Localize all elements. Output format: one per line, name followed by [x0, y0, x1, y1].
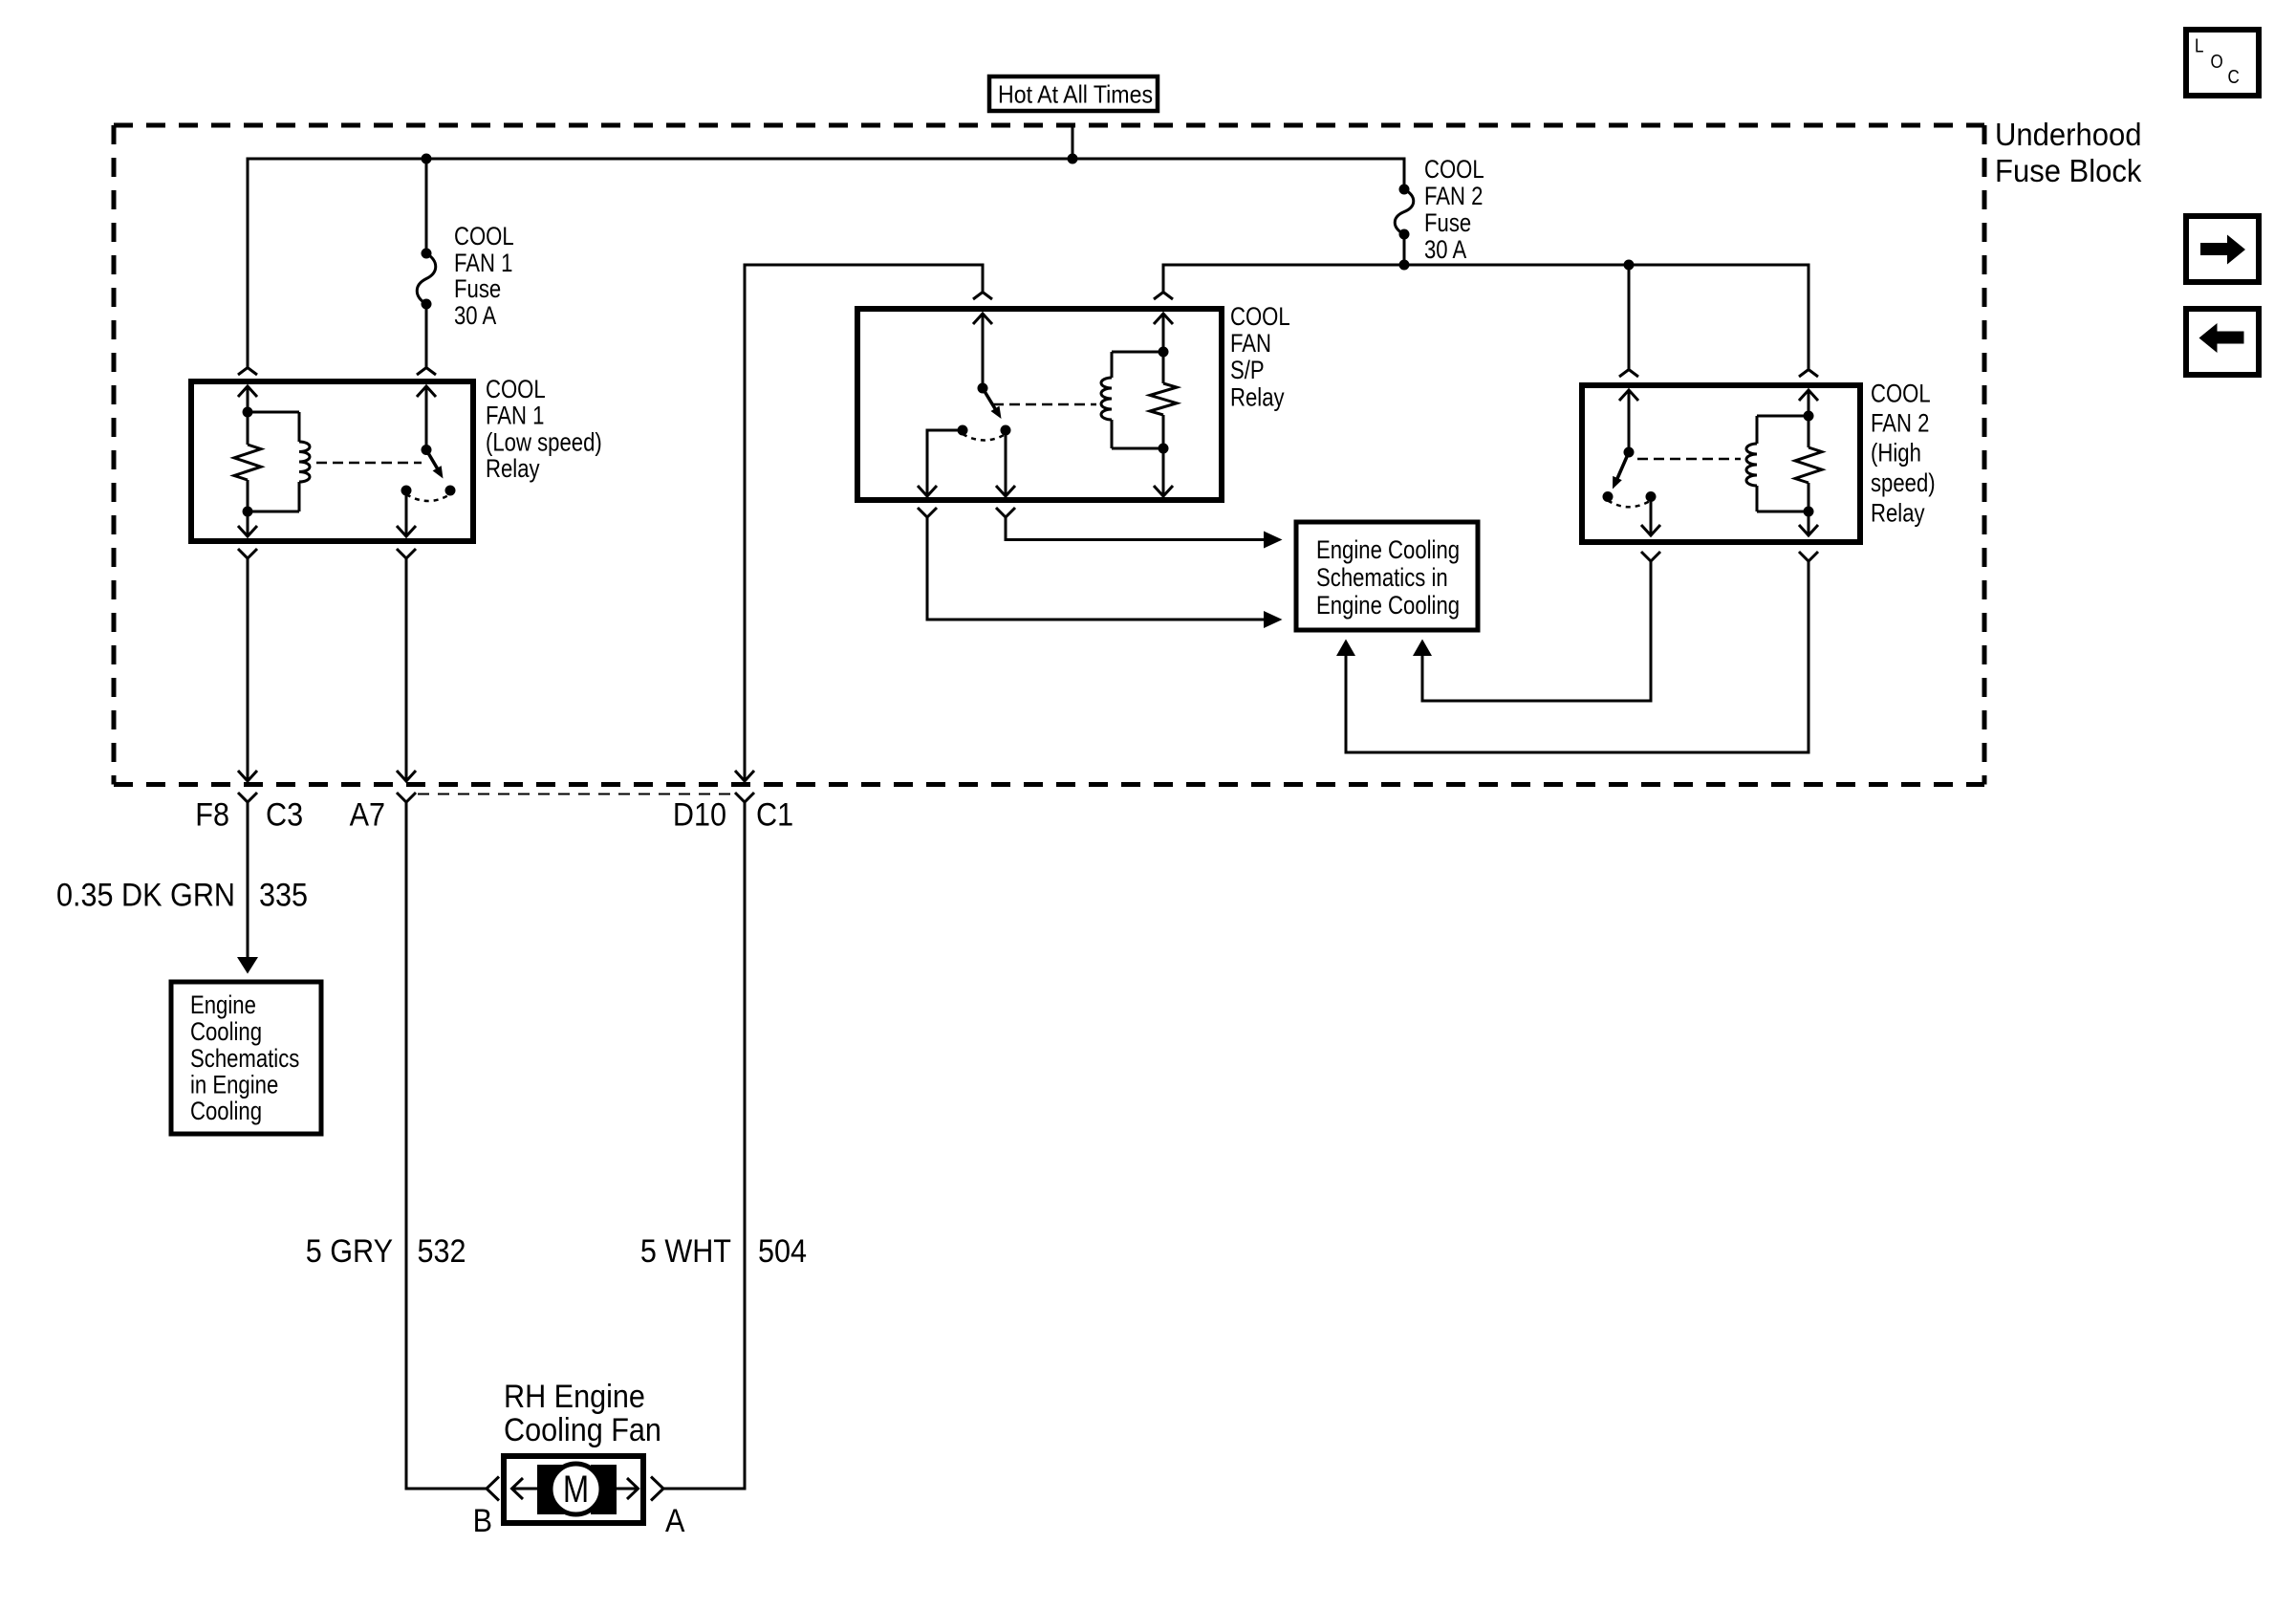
svg-text:Underhood: Underhood	[1995, 117, 2141, 152]
coil element K1	[299, 442, 310, 482]
svg-text:Engine: Engine	[190, 991, 256, 1020]
svg-text:F8: F8	[195, 796, 229, 833]
fuse F2 label	[1424, 156, 1484, 265]
wire: relay2 switch out to center ECS (right up-arrow)	[1422, 561, 1651, 701]
relay K3 COOL FAN 2 (High speed) box	[1582, 385, 1860, 542]
border arrow: A7 wire	[397, 771, 416, 781]
underhood fuse block label	[1995, 117, 2142, 188]
relay K2 coil + resistor parallel	[1101, 347, 1177, 454]
fuse F2 COOL FAN 2 30A	[1395, 185, 1414, 240]
wire: A7 feed down to border	[405, 558, 408, 781]
svg-text:532: 532	[418, 1233, 466, 1270]
pin arrow down: relay1 switch out	[397, 526, 416, 536]
relay K3 label	[1871, 381, 1936, 529]
svg-text:M: M	[563, 1468, 589, 1511]
svg-text:S/P: S/P	[1230, 357, 1265, 385]
pin arrow down: S/P coil out	[1154, 486, 1173, 496]
wire: relay2 coil down	[1808, 511, 1810, 535]
LOC page symbol box	[2186, 30, 2259, 96]
wire: relay2 switch pin drop	[1628, 265, 1631, 369]
connector Y below relay1 coil pin	[238, 549, 257, 558]
RH Engine Cooling Fan label	[504, 1378, 661, 1447]
svg-text:in Engine: in Engine	[190, 1072, 278, 1100]
svg-text:Relay: Relay	[1871, 500, 1925, 529]
wire: hot feed drop from border	[1072, 127, 1074, 159]
pin arrow up: relay1 switch pin	[417, 386, 436, 397]
svg-text:COOL: COOL	[1230, 303, 1290, 332]
arrow up into center ECS box (right)	[1413, 640, 1432, 657]
svg-text:C1: C1	[756, 796, 793, 833]
coil element K3	[1746, 444, 1757, 486]
svg-text:Cooling Fan: Cooling Fan	[504, 1412, 661, 1448]
connector chevron: relay2 switch pin top	[1619, 370, 1638, 378]
svg-text:Cooling: Cooling	[190, 1018, 262, 1047]
connector chevron: fan pin A	[651, 1477, 663, 1501]
pin arrow up: S/P switch pin	[973, 314, 992, 324]
relay K2 label	[1230, 303, 1290, 412]
resistor element K3	[1795, 447, 1822, 483]
svg-text:FAN 2: FAN 2	[1871, 410, 1929, 439]
svg-text:Schematics: Schematics	[190, 1045, 299, 1074]
wire: relay1 coil pin down	[247, 511, 249, 536]
svg-text:335: 335	[259, 877, 308, 913]
wire: bus segment A (D10 riser to S/P switch pin)	[745, 265, 983, 781]
svg-text:0.35 DK GRN: 0.35 DK GRN	[56, 877, 235, 913]
svg-text:speed): speed)	[1871, 469, 1936, 498]
wire: fuse1 lower lead	[425, 304, 428, 367]
svg-text:30 A: 30 A	[1424, 236, 1467, 265]
svg-text:Fuse: Fuse	[1424, 209, 1471, 238]
dashed control link K3	[1637, 458, 1741, 461]
wire: fuse1 upper lead	[425, 159, 428, 253]
connector Y below relay2 switch pin	[1641, 552, 1660, 561]
relay K2 COOL FAN S/P box	[857, 309, 1222, 500]
svg-text:Relay: Relay	[1230, 384, 1285, 413]
svg-text:C3: C3	[266, 796, 303, 833]
node: relay2 switch-pin junction	[1624, 260, 1635, 271]
dashed control link K2	[993, 403, 1096, 406]
wire: S/P left out to center ECS box (lower)	[927, 517, 1264, 620]
svg-text:C: C	[2228, 66, 2240, 88]
connector Y: C3 below border	[238, 793, 257, 802]
wire: S/P NC to left then down	[927, 430, 963, 496]
svg-text:5 WHT: 5 WHT	[640, 1233, 731, 1270]
svg-text:FAN: FAN	[1230, 330, 1271, 359]
connector dashed line A7-D10	[418, 794, 735, 795]
svg-text:O: O	[2211, 51, 2223, 73]
svg-text:RH Engine: RH Engine	[504, 1378, 645, 1414]
wire: S/P NO out to center ECS box (upper)	[1006, 517, 1264, 540]
node: fuse1 branch junction	[422, 154, 432, 164]
wire: 532 circuit A7 down to fan	[406, 802, 487, 1489]
connector Y: C1 below border	[735, 793, 754, 802]
connector Y: A7 below border	[397, 793, 416, 802]
svg-text:30 A: 30 A	[454, 302, 497, 331]
wire: bus segment B (S/P coil pin to relay2)	[1163, 265, 1809, 369]
wire: main B+ bus to fuses	[248, 159, 1404, 367]
svg-text:Relay: Relay	[486, 455, 540, 484]
pin arrow up: relay2 switch pin	[1619, 390, 1638, 401]
svg-text:Schematics in: Schematics in	[1316, 564, 1448, 593]
arrow up into center ECS box (left)	[1336, 640, 1355, 657]
wire: S/P NO down	[1005, 430, 1007, 496]
svg-text:Fuse Block: Fuse Block	[1995, 153, 2142, 188]
arrow into left ECS box	[237, 957, 258, 974]
svg-text:Engine Cooling: Engine Cooling	[1316, 592, 1460, 620]
node: hot feed junction	[1068, 154, 1078, 164]
pin arrow down: S/P left out	[918, 486, 937, 496]
connector chevron: relay1 pin top-right	[417, 368, 436, 376]
connector chevron: relay1 pin top-left	[238, 368, 257, 376]
node: fuse2 junction on bus B	[1399, 260, 1410, 271]
relay K3 coil + resistor parallel	[1746, 411, 1822, 517]
wire: 504 circuit C1 down to fan	[663, 802, 745, 1489]
resistor element K1	[234, 445, 261, 480]
wire: relay2 coil out to center ECS (left up-arrow)	[1346, 561, 1809, 752]
relay K1 coil + resistor parallel	[234, 407, 310, 517]
connector Y below relay1 switch pin	[397, 549, 416, 558]
wire: 335 circuit down from C3	[247, 802, 249, 958]
wire: fuse2 output lead	[1403, 234, 1406, 265]
connector Y below S/P left pin	[918, 508, 937, 517]
dashed control link K1	[316, 462, 422, 465]
svg-text:A7: A7	[350, 796, 385, 833]
svg-text:COOL: COOL	[454, 223, 514, 251]
fuse F1 label	[454, 223, 514, 331]
connector chevron: fan pin B	[487, 1477, 499, 1501]
pin arrow down: relay1 coil out	[238, 526, 257, 536]
pin arrow up: relay1 coil pin	[238, 386, 257, 397]
engine cooling schematics box (left)	[171, 982, 321, 1134]
connector chevron: S/P coil pin top	[1154, 293, 1173, 300]
svg-text:FAN 1: FAN 1	[454, 250, 512, 278]
svg-text:COOL: COOL	[486, 376, 546, 404]
engine cooling schematics box (center)	[1296, 522, 1478, 630]
left-arrow nav box	[2186, 309, 2259, 375]
svg-text:FAN 2: FAN 2	[1424, 183, 1483, 211]
wire: relay2 NO down	[1650, 497, 1653, 536]
svg-text:(High: (High	[1871, 440, 1921, 468]
relay K1 label	[486, 376, 602, 484]
right-arrow nav box	[2186, 216, 2259, 282]
relay K1 switch	[401, 445, 456, 501]
svg-text:COOL: COOL	[1424, 156, 1484, 185]
svg-text:(Low speed): (Low speed)	[486, 428, 602, 457]
svg-text:L: L	[2195, 34, 2203, 56]
wire: relay1 switch NC down	[405, 490, 408, 536]
fuse F1 COOL FAN 1 30A	[417, 249, 436, 310]
svg-text:504: 504	[758, 1233, 807, 1270]
pin arrow down: relay2 switch out	[1641, 525, 1660, 535]
pin arrow up: relay2 coil pin	[1799, 390, 1818, 401]
svg-text:COOL: COOL	[1871, 381, 1931, 409]
wire: F8 feed down to border	[247, 558, 249, 781]
pin arrow down: S/P NO out	[996, 486, 1015, 496]
resistor element K2	[1150, 383, 1177, 415]
svg-text:5 GRY: 5 GRY	[306, 1233, 393, 1270]
svg-text:Cooling: Cooling	[190, 1098, 262, 1126]
wire: S/P coil down	[1162, 448, 1165, 496]
border arrow: D10 wire	[735, 771, 754, 781]
hot-at-all-times box	[989, 76, 1158, 111]
underhood fuse block dashed border	[114, 125, 1984, 785]
coil element K2	[1101, 378, 1112, 420]
connector Y below relay2 coil pin	[1799, 552, 1818, 561]
pin arrow up: S/P coil pin	[1154, 314, 1173, 324]
connector Y below S/P NO pin	[996, 508, 1015, 517]
svg-text:A: A	[665, 1503, 685, 1539]
arrow into center ECS box (lower)	[1264, 611, 1283, 628]
relay K3 switch	[1603, 447, 1657, 508]
connector chevron: S/P switch pin top	[973, 293, 992, 300]
relay K2 switch	[958, 383, 1011, 441]
relay K1 COOL FAN 1 (Low speed) box	[191, 381, 473, 541]
pin arrow down: relay2 coil out	[1799, 525, 1818, 535]
svg-text:Hot At All Times: Hot At All Times	[998, 81, 1153, 109]
svg-text:Fuse: Fuse	[454, 275, 501, 304]
svg-text:D10: D10	[673, 796, 726, 833]
svg-text:B: B	[473, 1503, 492, 1539]
svg-text:FAN 1: FAN 1	[486, 402, 544, 431]
connector chevron: relay2 coil pin top	[1799, 370, 1818, 378]
motor M1 RH engine cooling fan	[504, 1456, 643, 1523]
arrow into center ECS box (upper)	[1264, 532, 1283, 549]
border arrow: F8 wire	[238, 771, 257, 781]
svg-text:Engine Cooling: Engine Cooling	[1316, 536, 1460, 565]
